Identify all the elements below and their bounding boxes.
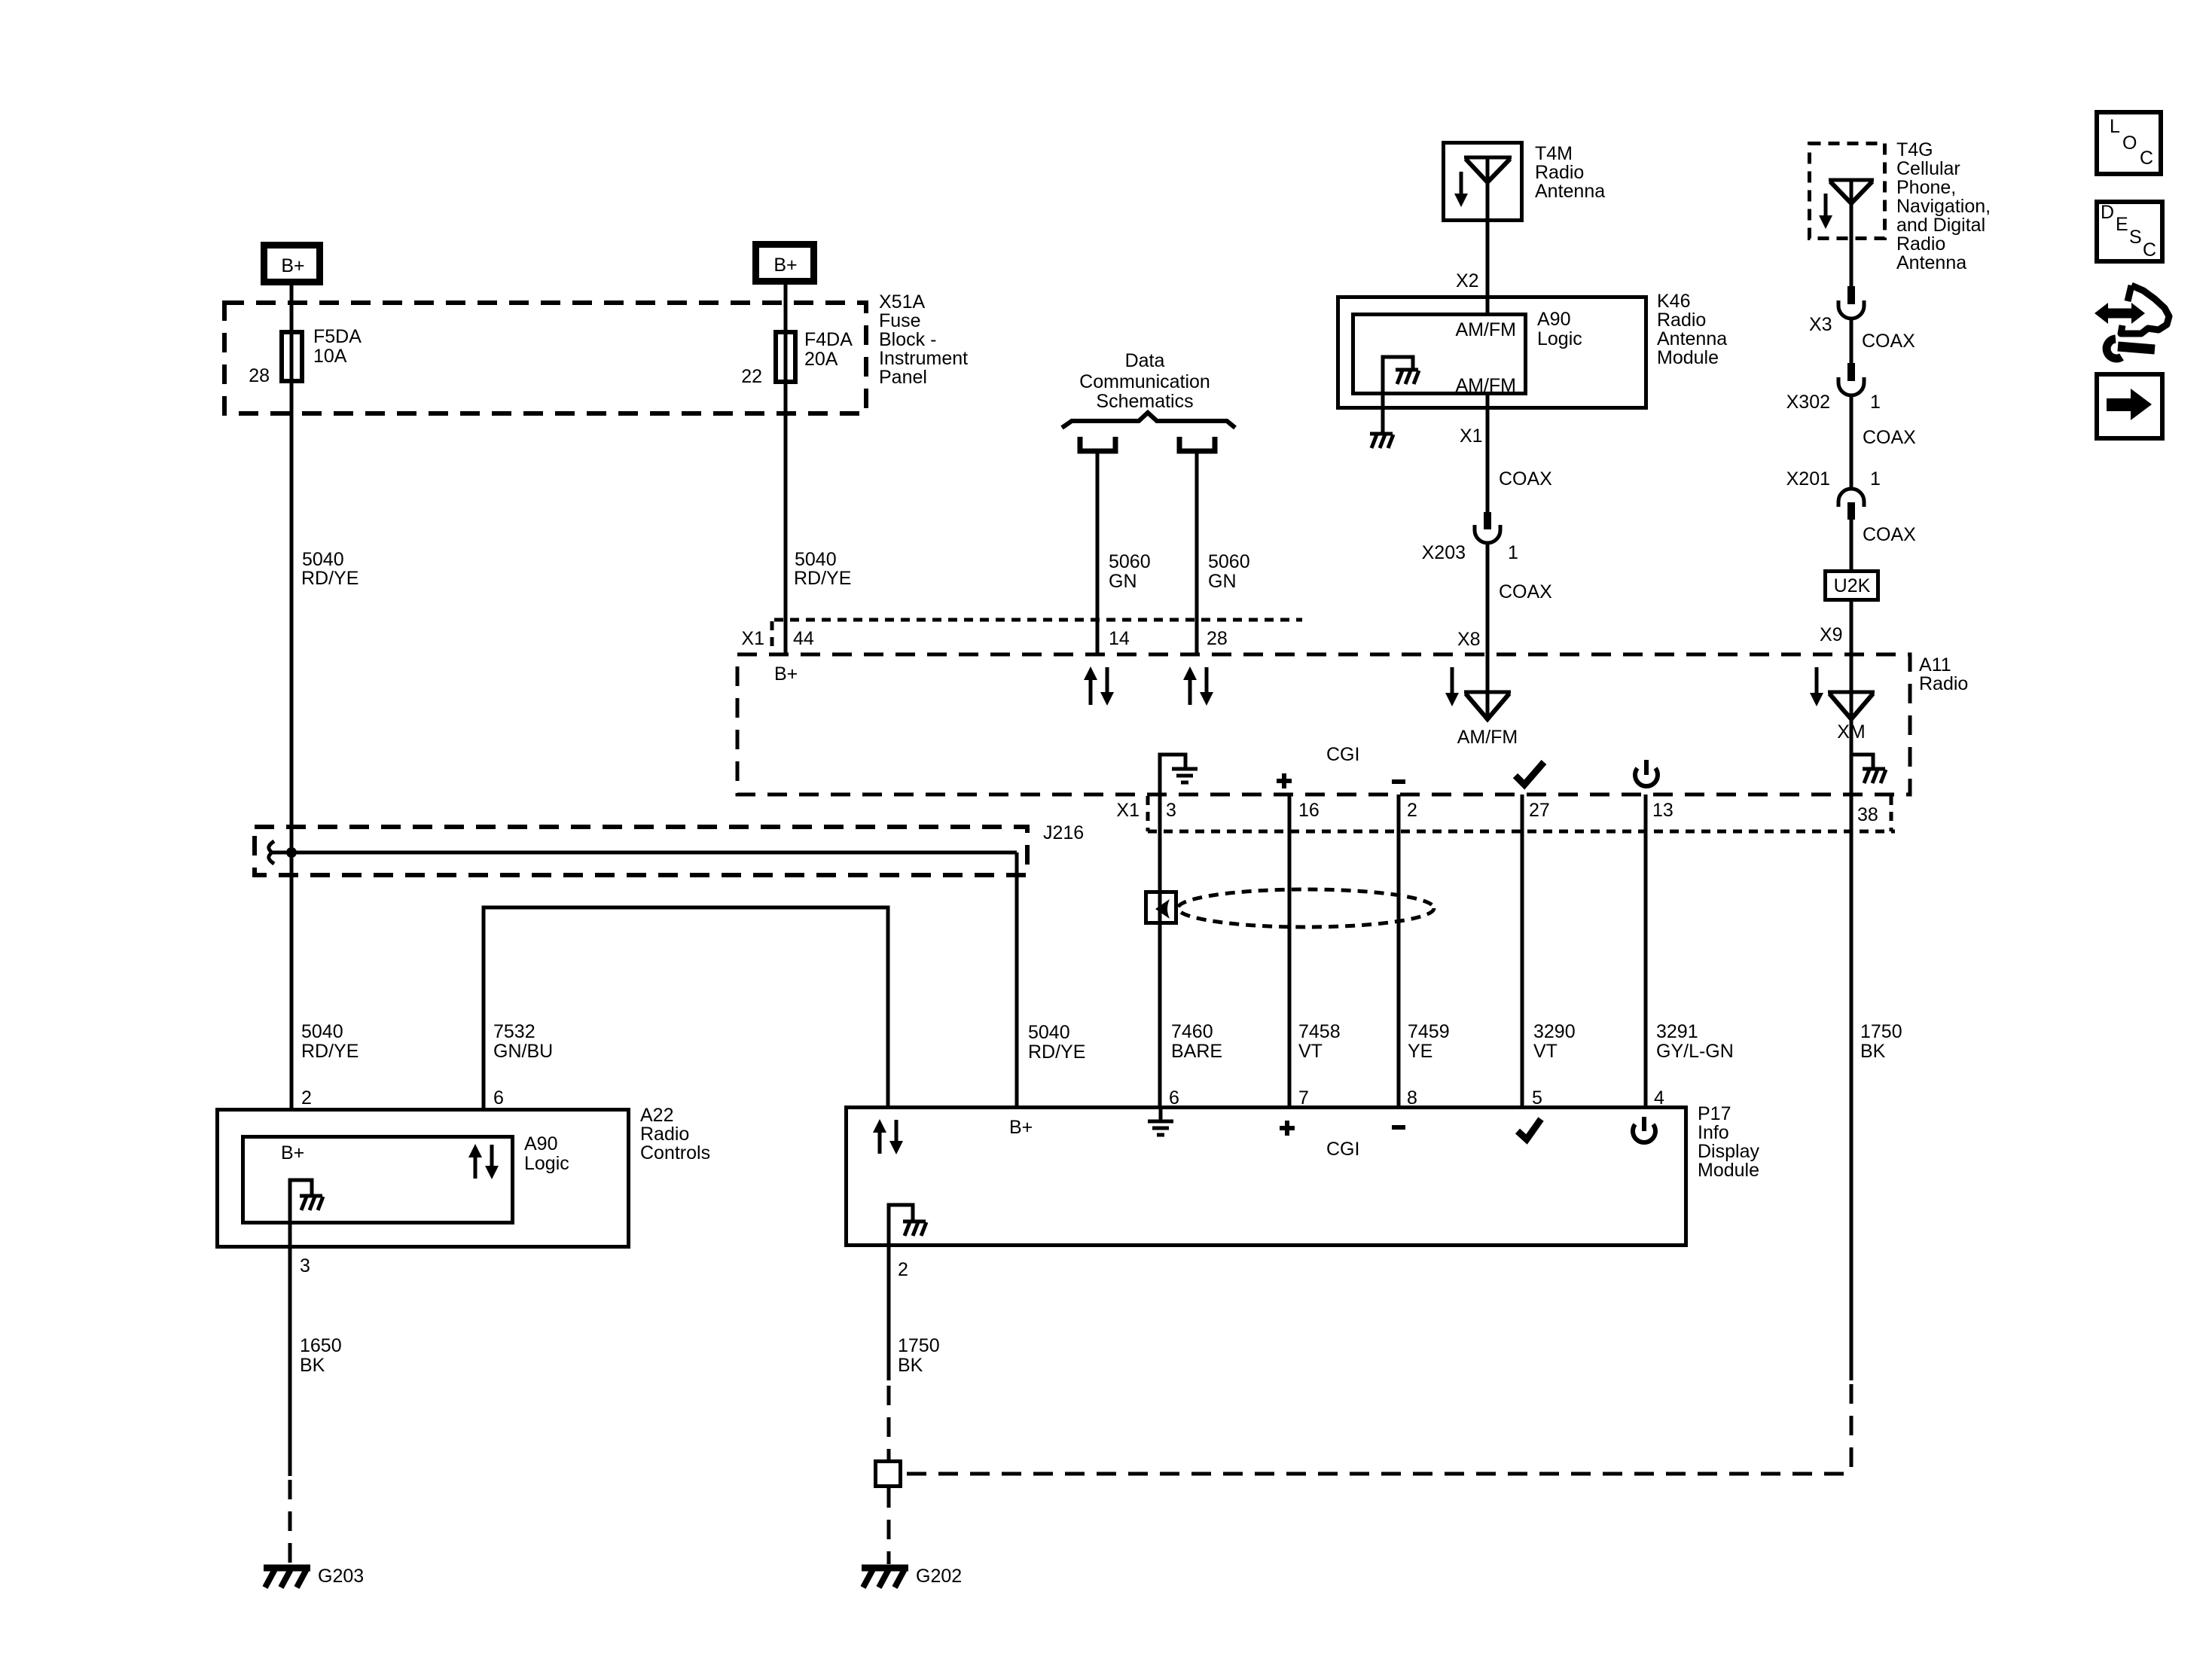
svg-text:27: 27	[1529, 800, 1550, 821]
svg-text:1: 1	[1508, 542, 1518, 563]
svg-text:28: 28	[249, 365, 270, 386]
svg-text:BK: BK	[300, 1355, 325, 1376]
svg-text:CGI: CGI	[1326, 744, 1359, 765]
svg-text:B+: B+	[281, 1142, 304, 1163]
svg-text:COAX: COAX	[1499, 468, 1552, 489]
svg-text:A90: A90	[524, 1133, 557, 1154]
svg-text:Display: Display	[1698, 1141, 1759, 1162]
svg-text:COAX: COAX	[1863, 524, 1916, 545]
svg-text:X203: X203	[1422, 542, 1466, 563]
svg-text:F5DA: F5DA	[313, 326, 362, 347]
svg-text:1650: 1650	[300, 1335, 342, 1356]
svg-text:CGI: CGI	[1326, 1139, 1359, 1160]
svg-text:10A: 10A	[313, 346, 347, 367]
svg-text:1: 1	[1870, 392, 1881, 413]
svg-text:VT: VT	[1533, 1041, 1558, 1062]
svg-text:K46: K46	[1657, 291, 1690, 312]
svg-text:E: E	[2116, 214, 2128, 235]
svg-text:A11: A11	[1919, 654, 1951, 676]
svg-text:Cellular: Cellular	[1896, 158, 1960, 179]
svg-text:1: 1	[1870, 468, 1881, 489]
svg-text:BK: BK	[898, 1355, 923, 1376]
svg-text:5040: 5040	[1028, 1022, 1070, 1043]
svg-text:COAX: COAX	[1862, 331, 1915, 352]
svg-text:BARE: BARE	[1171, 1041, 1222, 1062]
svg-text:4: 4	[1654, 1087, 1664, 1109]
svg-text:13: 13	[1652, 800, 1673, 821]
svg-text:7459: 7459	[1408, 1021, 1450, 1042]
svg-text:T4M: T4M	[1535, 143, 1573, 164]
svg-text:GY/L-GN: GY/L-GN	[1656, 1041, 1734, 1062]
svg-text:RD/YE: RD/YE	[1028, 1041, 1085, 1063]
svg-text:Antenna: Antenna	[1657, 328, 1727, 349]
svg-text:G202: G202	[916, 1566, 962, 1587]
svg-text:Schematics: Schematics	[1096, 391, 1193, 412]
svg-text:X1: X1	[1460, 425, 1483, 447]
svg-text:Instrument: Instrument	[879, 348, 968, 369]
svg-text:7460: 7460	[1171, 1021, 1213, 1042]
svg-text:3290: 3290	[1533, 1021, 1576, 1042]
svg-text:GN/BU: GN/BU	[493, 1041, 553, 1062]
svg-text:D: D	[2101, 202, 2114, 223]
svg-text:X201: X201	[1786, 468, 1830, 489]
svg-text:2: 2	[898, 1259, 908, 1280]
svg-text:O: O	[2122, 133, 2137, 154]
svg-text:Radio: Radio	[1535, 162, 1584, 183]
svg-text:28: 28	[1207, 628, 1228, 649]
svg-text:Phone,: Phone,	[1896, 177, 1956, 198]
svg-text:B+: B+	[281, 255, 304, 276]
svg-text:P17: P17	[1698, 1103, 1731, 1124]
svg-text:14: 14	[1109, 628, 1130, 649]
svg-text:B+: B+	[1009, 1117, 1033, 1138]
svg-text:5040: 5040	[795, 549, 837, 570]
svg-text:6: 6	[493, 1087, 504, 1109]
svg-text:X1: X1	[741, 628, 764, 649]
svg-text:7532: 7532	[493, 1021, 535, 1042]
svg-text:XM: XM	[1837, 721, 1866, 743]
svg-text:22: 22	[741, 366, 762, 387]
svg-text:Block -: Block -	[879, 329, 936, 350]
svg-text:S: S	[2129, 227, 2142, 248]
svg-text:6: 6	[1169, 1087, 1179, 1109]
svg-text:Info: Info	[1698, 1122, 1729, 1143]
svg-text:RD/YE: RD/YE	[301, 1041, 358, 1062]
svg-text:X3: X3	[1809, 314, 1832, 335]
svg-text:38: 38	[1857, 804, 1878, 825]
svg-text:Data: Data	[1125, 350, 1165, 371]
svg-text:1750: 1750	[898, 1335, 940, 1356]
svg-text:Panel: Panel	[879, 367, 927, 388]
svg-text:2: 2	[301, 1087, 312, 1109]
svg-text:AM/FM: AM/FM	[1455, 319, 1516, 340]
svg-text:Controls: Controls	[640, 1142, 710, 1163]
svg-text:C: C	[2140, 148, 2153, 169]
svg-text:BK: BK	[1860, 1041, 1886, 1062]
svg-text:G203: G203	[318, 1566, 364, 1587]
svg-text:Radio: Radio	[1919, 673, 1968, 694]
svg-text:20A: 20A	[804, 349, 838, 370]
svg-text:7: 7	[1298, 1087, 1309, 1109]
svg-text:A22: A22	[640, 1105, 673, 1126]
svg-text:Module: Module	[1657, 347, 1719, 368]
svg-text:8: 8	[1407, 1087, 1417, 1109]
svg-text:Module: Module	[1698, 1160, 1759, 1181]
svg-text:T4G: T4G	[1896, 139, 1933, 160]
svg-text:B+: B+	[773, 255, 797, 276]
svg-text:3: 3	[1166, 800, 1176, 821]
svg-text:Antenna: Antenna	[1896, 252, 1966, 273]
svg-text:44: 44	[793, 628, 814, 649]
svg-text:X1: X1	[1116, 800, 1140, 821]
svg-text:Logic: Logic	[1537, 328, 1582, 349]
svg-text:3291: 3291	[1656, 1021, 1698, 1042]
svg-text:RD/YE: RD/YE	[301, 568, 358, 589]
svg-text:COAX: COAX	[1863, 427, 1916, 448]
svg-text:F4DA: F4DA	[804, 329, 853, 350]
svg-text:B+: B+	[774, 663, 798, 685]
svg-text:X2: X2	[1456, 270, 1479, 291]
svg-text:X9: X9	[1820, 624, 1843, 645]
svg-text:16: 16	[1298, 800, 1320, 821]
svg-text:J216: J216	[1043, 822, 1084, 843]
svg-text:AM/FM: AM/FM	[1455, 375, 1516, 396]
svg-text:U2K: U2K	[1834, 575, 1871, 596]
svg-text:3: 3	[300, 1255, 310, 1276]
svg-text:AM/FM: AM/FM	[1457, 727, 1518, 748]
svg-text:X51A: X51A	[879, 291, 925, 313]
svg-text:YE: YE	[1408, 1041, 1432, 1062]
svg-text:5060: 5060	[1109, 551, 1151, 572]
svg-text:Communication: Communication	[1079, 371, 1210, 392]
svg-text:Navigation,: Navigation,	[1896, 196, 1991, 217]
svg-text:Logic: Logic	[524, 1153, 569, 1174]
svg-text:COAX: COAX	[1499, 581, 1552, 602]
svg-text:X302: X302	[1786, 392, 1830, 413]
svg-text:Fuse: Fuse	[879, 310, 921, 331]
svg-text:Radio: Radio	[1896, 233, 1945, 255]
svg-text:5040: 5040	[301, 1021, 343, 1042]
svg-text:Antenna: Antenna	[1535, 181, 1605, 202]
svg-text:5060: 5060	[1208, 551, 1250, 572]
svg-text:2: 2	[1407, 800, 1417, 821]
svg-text:5: 5	[1532, 1087, 1542, 1109]
svg-text:L: L	[2110, 116, 2120, 137]
svg-text:GN: GN	[1208, 571, 1237, 592]
svg-text:Radio: Radio	[640, 1124, 689, 1145]
svg-text:GN: GN	[1109, 571, 1137, 592]
svg-text:Radio: Radio	[1657, 310, 1706, 331]
svg-text:X8: X8	[1457, 629, 1481, 650]
svg-text:1750: 1750	[1860, 1021, 1902, 1042]
svg-text:7458: 7458	[1298, 1021, 1341, 1042]
svg-text:A90: A90	[1537, 309, 1570, 330]
svg-text:VT: VT	[1298, 1041, 1323, 1062]
svg-text:C: C	[2143, 239, 2156, 261]
svg-text:5040: 5040	[302, 549, 344, 570]
svg-text:RD/YE: RD/YE	[794, 568, 851, 589]
svg-text:and Digital: and Digital	[1896, 215, 1985, 236]
